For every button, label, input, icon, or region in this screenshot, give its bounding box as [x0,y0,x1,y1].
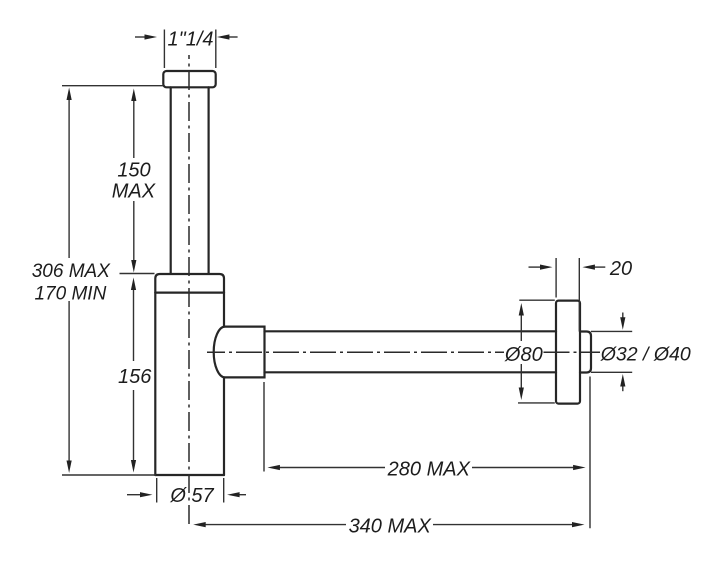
dim 57 right arrow shaft [240,494,247,496]
top datum line [62,85,163,87]
svg-text:280 MAX: 280 MAX [387,458,471,480]
dim 80 line lower [520,364,522,388]
dim 156 line lower [133,390,135,461]
dim 306/170 line lower [68,301,70,462]
inlet pipe right wall [208,87,210,273]
dim 340 line left segment [205,524,346,526]
dim 32/40 extension line top [591,330,632,332]
arrowhead 306 bottom [67,461,72,474]
svg-text:306 MAX: 306 MAX [32,261,111,282]
dim 1"1/4 left arrow shaft [135,36,147,38]
dim 156 line upper [133,289,135,361]
dim 80 extension line bottom [518,402,555,404]
arrowhead 80 top [519,303,524,316]
arrowhead 80 bottom [519,388,524,401]
svg-text:Ø80: Ø80 [504,344,543,366]
dim 150 line upper [133,100,135,158]
dim 32/40 lower arrow shaft [622,385,624,391]
svg-text:20: 20 [609,258,632,280]
arrowhead 32/40 up [620,374,625,387]
dim 20 right arrow shaft [593,266,605,268]
dim 80 extension line top [519,299,555,301]
svg-text:170 MIN: 170 MIN [34,284,106,305]
horizontal centerline right part [544,351,601,353]
dim 57 extension line right [223,478,225,503]
dim 1"1/4 extension line right [215,30,217,69]
vertical centerline [188,55,190,527]
arrowhead 340 left [193,522,206,527]
top flange (1"1/4 nut) [163,71,215,87]
arrowhead 340 right [572,522,585,527]
body top datum line [120,273,155,275]
svg-text:150: 150 [117,160,150,182]
arrowhead 20 right [582,265,595,270]
body cap joint line [155,292,224,294]
ground line [62,474,156,476]
arrowhead 150 bottom [131,260,136,273]
horizontal pipe top wall [265,330,557,332]
dim 150 line lower [133,201,135,261]
dim 57 extension line left [156,478,158,503]
arrowhead 1"1/4 left [145,34,158,39]
outlet nozzle [214,327,265,378]
pipe end stub [580,332,591,373]
trap body outline [155,274,224,475]
svg-text:1"1/4: 1"1/4 [167,29,213,51]
dim 57 left arrow shaft [127,494,140,496]
arrowhead 306 top [67,88,72,101]
arrowhead 32/40 down [620,317,625,330]
dim 1"1/4 right arrow shaft [227,36,238,38]
arrowhead 57 right [227,492,240,497]
dim 280 extension line (nozzle face) [263,382,265,472]
svg-text:340 MAX: 340 MAX [349,516,432,538]
svg-text:MAX: MAX [112,181,156,203]
arrowhead 280 right [573,465,586,470]
dim 20 extension line left [555,258,557,298]
body bottom edge [155,474,224,476]
arrowhead 280 left [267,465,280,470]
svg-text:Ø 57: Ø 57 [169,485,214,507]
arrowhead 1"1/4 right [217,34,230,39]
horizontal centerline left part [207,351,504,353]
dim 32/40 upper arrow shaft [622,313,624,319]
dim 280 line right segment [472,467,576,469]
svg-text:Ø32 / Ø40: Ø32 / Ø40 [600,343,691,365]
dim 20 left arrow shaft [529,266,542,268]
wall flange (rosette) [556,301,580,404]
horizontal pipe bottom wall [265,371,557,373]
arrowhead 57 left [140,492,153,497]
arrowhead 156 bottom [131,460,136,473]
dim 32/40 extension line bottom [591,371,632,373]
arrowhead 150 top [131,89,136,102]
inlet pipe left wall [170,87,172,273]
dim 280 line left segment [279,467,385,469]
arrowhead 20 left [540,265,553,270]
arrowhead 156 top [131,278,136,291]
dim 1"1/4 extension line left [163,30,165,69]
svg-text:156: 156 [118,366,152,388]
dim 306/170 line upper [68,99,70,258]
dim 340 line right segment [433,524,575,526]
dim 20 extension line right [578,258,580,332]
pipe end extension line [589,377,591,529]
dim 80 line upper [520,315,522,341]
